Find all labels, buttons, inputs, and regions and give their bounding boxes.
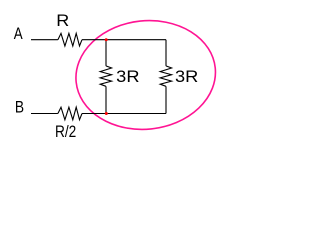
- svg-text:3R: 3R: [116, 68, 139, 86]
- highlight ellipse (magenta annotation around parallel resistors): [71, 14, 221, 136]
- right branch top wire: [165, 40, 167, 66]
- left branch top wire: [105, 40, 107, 66]
- left branch bottom wire: [105, 86, 107, 113]
- top rail wire from node to right branch corner: [106, 39, 166, 41]
- svg-text:R/2: R/2: [55, 123, 76, 141]
- svg-text:3R: 3R: [175, 68, 198, 86]
- junction dot top node: [105, 38, 108, 41]
- wire from resistor R to top node: [82, 39, 106, 41]
- right branch bottom wire: [165, 86, 167, 113]
- svg-text:B: B: [15, 99, 24, 117]
- wire from A to resistor R: [31, 39, 58, 41]
- resistor 3R right (vertical zigzag): [160, 66, 171, 86]
- svg-text:A: A: [14, 25, 23, 43]
- resistor 3R left (vertical zigzag): [100, 66, 111, 86]
- wire from resistor R/2 to bottom node: [82, 113, 106, 115]
- junction dot bottom node: [105, 112, 108, 115]
- svg-text:R: R: [56, 12, 69, 30]
- wire from B to resistor R/2: [31, 113, 58, 115]
- resistor R/2 (horizontal zigzag): [58, 107, 82, 120]
- bottom rail wire from node to right branch: [106, 113, 166, 115]
- resistor R (horizontal zigzag): [58, 33, 82, 46]
